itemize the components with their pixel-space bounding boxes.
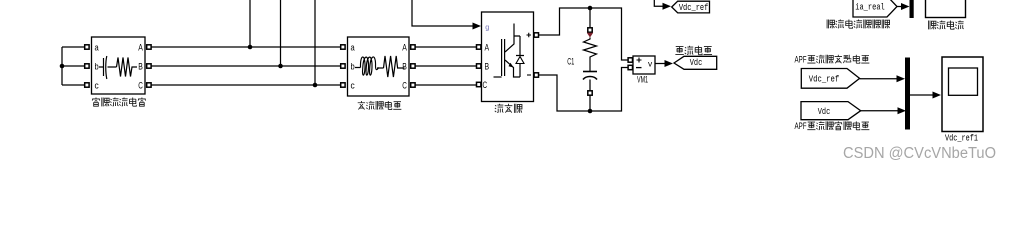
逆变桥 inverter block: [482, 12, 534, 102]
v output wire: [655, 63, 665, 65]
svg-text:a: a: [351, 43, 355, 53]
mux bar: [905, 58, 910, 130]
inductor icon (series RL): [355, 57, 379, 75]
交流侧电感 block: [348, 37, 410, 96]
port: [411, 83, 415, 87]
from tag Vdc_ref: [801, 69, 859, 89]
svg-text:B: B: [402, 62, 407, 72]
svg-text:v: v: [648, 59, 653, 69]
C1 branch: [589, 8, 591, 28]
wire to goto Vdc_ref: [654, 0, 663, 6]
svg-text:B: B: [485, 62, 490, 72]
label 直流电压: [675, 47, 683, 55]
svg-text:C1: C1: [567, 56, 574, 66]
tap wire b: [280, 0, 282, 66]
wire: [61, 47, 63, 85]
wire to scope: [910, 94, 933, 96]
svg-text:a: a: [95, 43, 99, 53]
port: [341, 45, 345, 49]
from tag ia_real: [853, 0, 897, 17]
node: [588, 109, 593, 114]
current arrow (red): [587, 33, 593, 38]
mux bar: [910, 0, 914, 18]
gate pulse wire: [412, 0, 473, 26]
三相高频滤波电容 block: [92, 37, 146, 94]
tap wire a: [249, 0, 251, 47]
node: [278, 64, 283, 69]
svg-text:A: A: [138, 43, 143, 53]
svg-text:Vdc: Vdc: [818, 106, 831, 117]
label 谐波电流: [929, 21, 936, 30]
scope screen: [949, 68, 978, 95]
port: [588, 28, 592, 32]
IGBT + diode icon: [502, 39, 505, 76]
svg-text:C: C: [402, 81, 407, 91]
node: [313, 83, 318, 88]
goto tag Vdc: [674, 56, 717, 69]
wire: [861, 110, 898, 112]
port C: [477, 82, 481, 86]
label 谐波电流补偿值: [827, 20, 834, 29]
capacitor plates: [583, 71, 597, 73]
resistor zigzag: [584, 38, 597, 72]
port: [85, 45, 89, 49]
wire: [897, 6, 902, 8]
wire: [415, 46, 476, 48]
svg-text:A: A: [402, 43, 407, 53]
svg-text:c: c: [95, 81, 100, 91]
svg-text:Vdc_ref: Vdc_ref: [809, 74, 840, 85]
from tag Vdc: [801, 102, 861, 120]
port: [341, 64, 345, 68]
label 交流侧电感: [358, 101, 365, 109]
port B: [477, 64, 481, 68]
port +: [534, 33, 538, 37]
port +: [628, 58, 632, 62]
svg-text:A: A: [485, 43, 490, 53]
port: [147, 64, 151, 68]
svg-text:VM1: VM1: [637, 74, 648, 85]
goto tag Vdc_ref: [672, 1, 710, 13]
svg-text:ia_real: ia_real: [855, 1, 885, 12]
svg-text:g: g: [485, 23, 489, 32]
wire: [415, 84, 476, 86]
capacitor icon (series RC): [99, 56, 117, 79]
svg-text:APF: APF: [795, 121, 807, 132]
node: [248, 45, 253, 50]
wire row C: [151, 84, 340, 86]
svg-text:APF: APF: [795, 55, 807, 66]
wire - rail: [539, 68, 628, 112]
port -: [534, 73, 538, 77]
wire: [860, 78, 897, 80]
port: [411, 64, 415, 68]
wire + rail: [539, 8, 628, 60]
port: [341, 83, 345, 87]
node junction: [60, 64, 65, 69]
port A: [477, 45, 481, 49]
voltage measurement VM1: [633, 56, 655, 74]
scope 谐波电流: [926, 0, 966, 18]
scope Vdc_ref1: [942, 57, 983, 132]
tap wire c: [314, 0, 316, 85]
svg-text:Vdc_ref: Vdc_ref: [679, 2, 709, 13]
wire: [62, 47, 85, 85]
wire: [415, 65, 476, 67]
port: [85, 64, 89, 68]
svg-text:Vdc: Vdc: [690, 57, 703, 68]
svg-text:C: C: [483, 80, 488, 90]
port: [147, 45, 151, 49]
port -: [628, 65, 632, 69]
svg-text:b: b: [351, 62, 355, 72]
svg-text:C: C: [138, 81, 143, 91]
port: [588, 91, 592, 95]
port: [147, 83, 151, 87]
wire row B: [151, 65, 340, 67]
svg-text:CSDN @CVcVNbeTuO: CSDN @CVcVNbeTuO: [843, 145, 996, 162]
wire row A: [151, 46, 340, 48]
node: [588, 6, 593, 11]
svg-text:b: b: [95, 62, 99, 72]
label 逆变桥: [495, 104, 504, 113]
port: [85, 83, 89, 87]
svg-text:c: c: [351, 81, 356, 91]
port: [411, 45, 415, 49]
svg-text:Vdc_ref1: Vdc_ref1: [945, 132, 978, 143]
label 高频滤波电容: [92, 98, 100, 107]
svg-text:B: B: [138, 62, 143, 72]
